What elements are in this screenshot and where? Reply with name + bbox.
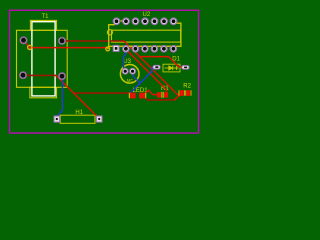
wire: U2 to D1 right pad	[124, 41, 181, 96]
R1 SMD pads	[157, 92, 168, 98]
transformer T1 silkscreen top tab	[30, 20, 56, 30]
wire: LED1 right pad zigzag to R1 left pad	[145, 90, 158, 94]
H1 right pad	[96, 116, 102, 122]
diode D1 symbol	[165, 66, 179, 70]
wire: LED1 right pad to R2 bottom rail	[145, 98, 175, 100]
U2 silkscreen body outline	[112, 30, 181, 42]
wire: via to U2 via horizontal	[30, 47, 108, 49]
wire: U2 pad2 diagonal to R1 right pad	[126, 49, 167, 92]
transformer T1 silkscreen bottom tab	[30, 87, 57, 98]
T1 pad 4 (bottom-right)	[59, 73, 66, 80]
wire: D1 left pad stub	[131, 67, 153, 92]
R2 SMD pads	[179, 90, 192, 96]
svg-text:U2: U2	[143, 12, 151, 18]
diode D1 silkscreen body	[163, 64, 180, 72]
U3 silkscreen circle	[120, 65, 139, 84]
U2 bottom pad row pins 2-7	[123, 46, 177, 52]
transformer T1 silkscreen main rect	[17, 30, 68, 87]
wire: T1 bottom-left pad horizontal	[23, 74, 56, 76]
wire: T1 bottom-right pad down to H1 left pad	[58, 76, 63, 116]
svg-text:T1: T1	[42, 14, 50, 20]
U2 pin-14 tick	[121, 20, 123, 21]
wire: U3 right pad down toward R1	[133, 71, 140, 83]
header H1 silkscreen body	[60, 115, 95, 123]
H1 left pad	[54, 116, 60, 122]
T1 pad 2 (top-right)	[59, 37, 66, 44]
LED1 SMD pads	[129, 93, 147, 99]
D1 right pad	[182, 66, 189, 70]
via near T1	[28, 45, 32, 49]
blue traces	[58, 49, 154, 116]
wire: diagonal to R2 left pad	[139, 57, 181, 68]
board outline	[10, 10, 199, 133]
svg-text:R2: R2	[183, 83, 191, 89]
U2 pin-1 indicator circle	[107, 30, 112, 35]
wire: U2 pad2 down to U3 left pad	[124, 49, 126, 71]
T1 pad 3 (bottom-left)	[20, 72, 27, 79]
D1 left pad	[153, 65, 160, 69]
U2 top pad row pins 8-14	[113, 18, 177, 25]
yellow trace: U2 pin14 around to via	[108, 21, 181, 49]
svg-text:U3: U3	[123, 59, 131, 65]
U2 pin 1 square pad	[113, 45, 119, 51]
wire: T1 right pad to U2 area horizontal	[62, 40, 124, 42]
T1 pad 1 (top-left)	[20, 37, 27, 44]
bright red traces (top-layer)	[24, 40, 182, 119]
yellow trace: U2 pin1 to via	[108, 21, 116, 49]
wire: T1 top-left pad to via	[24, 40, 30, 47]
transformer T1 core outline (white layer)	[32, 22, 55, 96]
via near U2 pin1	[106, 47, 110, 51]
wire: rail up to R2 left pad	[175, 94, 181, 100]
wire: T1 bottom-left to H1 right pad diagonal	[56, 75, 100, 119]
board background	[0, 0, 208, 144]
svg-text:MC: MC	[127, 78, 134, 83]
U3 pad right	[130, 68, 136, 74]
dark traces (bottom-layer style)	[23, 41, 175, 100]
U3 pad left	[122, 68, 128, 74]
wire: horizontal to LED1 left pad	[74, 92, 130, 94]
svg-text:H1: H1	[75, 110, 83, 116]
